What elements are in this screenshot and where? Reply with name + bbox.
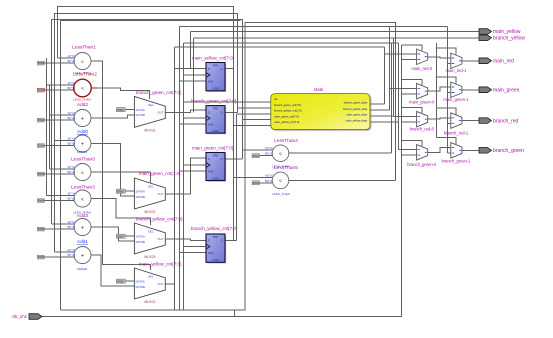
wire mux3 OUT to reg4 D (165, 239, 206, 240)
register main_green_cnt[7:0] (206, 153, 226, 182)
wire LessThan1 output to mux4 sel (91, 61, 151, 270)
svg-text:branch_yellow_cnt[7:0]: branch_yellow_cnt[7:0] (191, 226, 237, 231)
wire state branch_green_cnt input (238, 108, 271, 112)
wire left bus A (46, 58, 48, 196)
svg-text:8'h01: 8'h01 (38, 144, 45, 148)
constant 8'h00 mux3 DATAA (116, 234, 125, 238)
svg-text:A[7:0]: A[7:0] (67, 248, 75, 252)
svg-text:LESS_THAN: LESS_THAN (272, 192, 290, 196)
svg-text:main_yellow: main_yellow (493, 29, 521, 35)
svg-text:OUT: OUT (157, 192, 163, 196)
svg-text:8'h00: 8'h00 (117, 189, 124, 193)
svg-text:+: + (81, 117, 85, 123)
svg-text:DATAB: DATAB (136, 240, 145, 244)
constant 8'h31 for LessThan1 (37, 61, 45, 65)
svg-text:B[7:0]: B[7:0] (67, 59, 75, 63)
constant 8'h2c LessThan4 (252, 154, 260, 158)
svg-text:branch_yellow: branch_yellow (493, 36, 525, 42)
wire LessThan4 A input (243, 149, 273, 151)
svg-text:Add3: Add3 (77, 213, 89, 219)
mux main_red-0 (417, 49, 428, 65)
svg-text:DATAA: DATAA (136, 190, 145, 194)
wire main_red-0 in2 (402, 59, 417, 61)
svg-text:A[7:0]: A[7:0] (67, 54, 75, 58)
wire LessThan2 A pin stub (highlighted) (71, 84, 75, 86)
wire mux1 OUT to reg2 D (165, 110, 206, 113)
svg-text:DATAA: DATAA (136, 108, 145, 112)
wire Add2 output to mux1 DATAB (91, 115, 134, 118)
svg-text:MUX21: MUX21 (144, 210, 155, 214)
svg-text:MUX21: MUX21 (144, 300, 155, 304)
svg-text:branch_green_data: branch_green_data (344, 101, 368, 105)
svg-text:+: + (81, 254, 85, 260)
svg-text:LessThan5: LessThan5 (274, 165, 298, 171)
svg-text:8'h24: 8'h24 (38, 172, 45, 176)
svg-text:D: D (208, 157, 210, 161)
wire Add2 B input (44, 119, 74, 121)
svg-text:branch_yellow_data: branch_yellow_data (343, 107, 367, 111)
svg-text:OUT: OUT (157, 111, 163, 115)
svg-text:<: < (81, 86, 84, 92)
svg-text:main_green_cnt(7:0): main_green_cnt(7:0) (139, 171, 181, 176)
output port main_yellow (479, 29, 492, 35)
svg-text:8'h2c: 8'h2c (253, 154, 260, 158)
wire mux2 DATAA stub (125, 190, 134, 192)
adder Add3 (74, 219, 91, 236)
svg-text:ENA: ENA (208, 170, 214, 174)
constant 8'h05 for LessThan3 (37, 199, 45, 203)
svg-text:8'h00: 8'h00 (117, 108, 124, 112)
wire reg4 clk stub (184, 246, 207, 248)
wire band x190 riser (190, 32, 192, 69)
comparator LessThan4 (272, 145, 289, 162)
wire vertical mid column x183.5 (183, 43, 185, 310)
wire mux4 DATAA stub (125, 280, 134, 282)
wire reg2 en stub (180, 123, 207, 125)
wire state branch_yellow_data output (370, 27, 390, 111)
svg-text:LessThan4: LessThan4 (274, 138, 298, 144)
wire main_green-1 in2 (448, 92, 451, 94)
svg-text:<: < (279, 152, 282, 158)
svg-text:main_green: main_green (493, 88, 520, 94)
output port branch_yellow (479, 35, 492, 41)
svg-text:DATAB: DATAB (136, 113, 145, 117)
wire main_green-0 in1 (390, 87, 417, 89)
svg-text:+: + (81, 226, 85, 232)
svg-text:B[7:0]: B[7:0] (67, 197, 75, 201)
svg-text:D: D (208, 239, 210, 243)
svg-text:main_yellow_data: main_yellow_data (345, 118, 367, 122)
wire main_green-0 sel (402, 79, 422, 85)
svg-text:D: D (208, 110, 210, 114)
wire main_red-1 in2 (448, 63, 451, 65)
svg-text:main_green-1: main_green-1 (443, 97, 469, 102)
wire LessThan3 output to mux3 sel (91, 199, 151, 226)
svg-text:Add2: Add2 (77, 102, 89, 108)
wire main_yellow net (191, 31, 480, 33)
svg-text:ENA: ENA (208, 80, 214, 84)
register branch_green_cnt[7:0] (206, 106, 226, 135)
svg-text:main_green_cnt[7:0]: main_green_cnt[7:0] (274, 114, 299, 118)
wire branch_red-1 in2 (448, 122, 451, 124)
svg-text:main_red-0: main_red-0 (411, 66, 432, 71)
svg-text:main_red-1: main_red-1 (446, 68, 467, 73)
wire clk stub x234 (234, 310, 236, 316)
wire reg3 en stub (180, 170, 207, 172)
wire LessThan5 B input (260, 182, 273, 184)
wire state branch_green_data output (370, 47, 385, 104)
input port clk_1hz (29, 314, 42, 320)
svg-text:<: < (81, 197, 84, 203)
constant 8'h18 LessThan5 (252, 181, 260, 185)
svg-text:SEL: SEL (148, 103, 154, 107)
wire LessThan2 B input (44, 89, 71, 91)
wire branch_green-0 sel (402, 141, 422, 147)
wire main_green-0 in2 (402, 93, 417, 95)
constant 8'h01 for Add3 (37, 227, 45, 231)
wire Add0 A input (55, 140, 75, 142)
wire LessThan0 A input (50, 168, 75, 170)
svg-text:A[7:0]: A[7:0] (67, 81, 75, 85)
wire LessThan3 B input (44, 200, 74, 202)
mux MUX21 #1 branch_green (134, 96, 165, 127)
wire Add1 A input (55, 251, 75, 253)
mux branch_green-0 (417, 145, 428, 161)
wire state clk input (184, 101, 271, 103)
svg-text:B[7:0]: B[7:0] (67, 225, 75, 229)
wire main_red net to port (462, 60, 479, 62)
wire branch_red-0 sel (402, 107, 422, 113)
wire reg1 Q out (225, 68, 234, 70)
svg-text:ADDER: ADDER (77, 267, 88, 271)
wire main_red-1 sel (437, 48, 456, 55)
wire sel feeder vertical x436.5 (436, 43, 438, 138)
svg-text:OUT: OUT (157, 237, 163, 241)
constant 8'h00 mux2 DATAA (116, 189, 125, 193)
mux branch_red-0 (417, 111, 428, 127)
wire mux3 DATAA stub (125, 235, 134, 237)
svg-text:branch_green: branch_green (493, 148, 524, 154)
svg-text:branch_red-0: branch_red-0 (410, 127, 435, 132)
svg-text:PRE: PRE (213, 154, 219, 158)
svg-text:main_green-0: main_green-0 (409, 100, 435, 105)
wire Add0 output to mux2 DATAB (91, 144, 134, 197)
mux MUX21 #4 main_yellow (134, 268, 165, 299)
mux main_green-0 (417, 83, 428, 99)
wire bottom frame (61, 23, 245, 311)
svg-text:CLRN: CLRN (212, 129, 219, 133)
svg-text:branch_red: branch_red (493, 118, 519, 124)
wire bus frame top 1 (58, 7, 234, 241)
svg-text:main_green_cnt[7:0]: main_green_cnt[7:0] (192, 146, 233, 151)
wire reg2 Q out (225, 111, 238, 113)
wire band y46.9 (175, 46, 385, 48)
svg-text:8'h01: 8'h01 (38, 255, 45, 259)
wire Add3 B input (44, 228, 74, 230)
output port branch_green (479, 148, 492, 154)
svg-text:DATAA: DATAA (136, 235, 145, 239)
register main_yellow_cnt[7:0] (206, 63, 226, 93)
svg-text:state: state (314, 87, 324, 92)
wire branch_red-0 in1 (394, 115, 417, 117)
svg-text:<: < (81, 170, 84, 176)
wire LessThan2 output to mux1 sel (97, 88, 150, 99)
svg-text:A[7:0]: A[7:0] (265, 173, 273, 177)
mux branch_red-1 (451, 113, 462, 129)
wire state main_yellow_data output (370, 43, 399, 150)
wire Add1 B input (44, 256, 74, 258)
svg-text:clk_1hz: clk_1hz (12, 314, 27, 319)
adder Add0 (74, 135, 91, 152)
wire band y26.6 (180, 26, 448, 28)
wire band x193 riser (193, 38, 195, 113)
wire main_red-0 sel (402, 45, 422, 51)
wire LessThan4 B input (260, 155, 273, 157)
adder Add2 (74, 110, 91, 127)
svg-text:DATAB: DATAB (136, 195, 145, 199)
constant 8'h00 mux4 DATAA (116, 279, 125, 283)
svg-text:B[7:0]: B[7:0] (67, 170, 75, 174)
module frame (61, 21, 241, 311)
wire LessThan5 A input (234, 176, 273, 178)
wire in2 feeder vertical x447.5 (447, 27, 449, 154)
wire LessThan0 output to mux2 sel (91, 172, 151, 183)
wire main_green-0 out to main_green-1 in1 (428, 87, 451, 91)
svg-text:Add1: Add1 (77, 239, 89, 245)
svg-text:main_red: main_red (493, 59, 514, 65)
svg-text:main_yellow_cnt[7:0]: main_yellow_cnt[7:0] (274, 120, 299, 124)
svg-text:PRE: PRE (213, 235, 219, 239)
wire branch_red-1 sel (437, 108, 456, 115)
wire state branch_yellow_cnt input (237, 113, 271, 115)
svg-text:branch_green_cnt(7:0): branch_green_cnt(7:0) (136, 90, 182, 95)
wire vertical mid column x174.5 (174, 47, 176, 310)
wire Add2 A input (50, 114, 75, 116)
svg-text:8'h00: 8'h00 (117, 279, 124, 283)
comparator LessThan2 (highlighted red) (74, 79, 92, 97)
wire LessThan2 B pin stub (highlighted) (71, 89, 75, 91)
svg-text:SEL: SEL (148, 230, 154, 234)
svg-text:PRE: PRE (213, 64, 219, 68)
svg-text:main_yellow_cnt[7:0]: main_yellow_cnt[7:0] (192, 56, 234, 61)
svg-text:ENA: ENA (208, 251, 214, 255)
wire bus frame top 2 (55, 14, 238, 253)
constant 8'h00 mux1 DATAA (116, 108, 125, 112)
constant 8'h01 for Add2 (37, 118, 45, 122)
svg-text:DATAB: DATAB (136, 285, 145, 289)
constant 8'h01 for Add1 (37, 255, 45, 259)
op-amp circle LessThan1 (74, 53, 91, 70)
svg-text:B[7:0]: B[7:0] (265, 152, 273, 156)
constant 8'h01 for Add0 (37, 144, 45, 148)
svg-text:LessThan3: LessThan3 (71, 185, 95, 191)
svg-text:LessThan0: LessThan0 (71, 157, 95, 163)
svg-text:B[7:0]: B[7:0] (67, 142, 75, 146)
wire branch_green net to port (462, 149, 479, 151)
wire state main_yellow_cnt input (234, 114, 271, 241)
wire mux2 OUT to reg3 D (165, 158, 206, 194)
svg-text:8'h31: 8'h31 (38, 61, 45, 65)
svg-text:CLRN: CLRN (212, 258, 219, 262)
svg-text:ENA: ENA (208, 123, 214, 127)
wire branch_red-0 in2 (402, 121, 417, 123)
wire LessThan1 B input (44, 62, 74, 64)
svg-text:A[7:0]: A[7:0] (67, 220, 75, 224)
wire reg1 en stub (180, 80, 207, 82)
svg-text:8'h01: 8'h01 (38, 118, 45, 122)
wire left bus B (49, 85, 51, 169)
svg-text:PRE: PRE (213, 107, 219, 111)
output port main_red (479, 58, 492, 64)
wire Add0 B input (44, 145, 74, 147)
block state (271, 94, 372, 132)
wire mux1 DATAA stub (125, 109, 134, 111)
svg-text:CLRN: CLRN (212, 87, 219, 91)
output port main_green (479, 87, 492, 93)
svg-text:CLRN: CLRN (212, 176, 219, 180)
wire LessThan2 output pin stub (highlighted) (91, 87, 97, 89)
output port branch_red (479, 118, 492, 124)
svg-text:<: < (279, 179, 282, 185)
svg-text:MUX21: MUX21 (144, 255, 155, 259)
svg-text:D: D (208, 67, 210, 71)
svg-text:8'h01: 8'h01 (38, 227, 45, 231)
svg-text:8'h05: 8'h05 (38, 88, 45, 92)
wire LessThan5 output (289, 179, 396, 181)
svg-text:OUT: OUT (157, 282, 163, 286)
comparator LessThan3 (74, 190, 91, 207)
svg-text:main_yellow_cnt(7:0): main_yellow_cnt(7:0) (139, 261, 182, 266)
wire branch_green-0 out to branch_green-1 in1 (428, 148, 451, 153)
svg-text:A[7:0]: A[7:0] (67, 192, 75, 196)
mux main_red-1 (451, 53, 462, 69)
svg-text:8'h00: 8'h00 (117, 234, 124, 238)
svg-text:Add0: Add0 (77, 129, 89, 135)
wire band y24.5 (245, 23, 396, 181)
svg-text:SEL: SEL (148, 185, 154, 189)
svg-text:main_green_data: main_green_data (346, 113, 367, 117)
svg-text:SEL: SEL (148, 275, 154, 279)
svg-text:branch_green_cnt[7:0]: branch_green_cnt[7:0] (274, 103, 301, 107)
wire main_green-1 sel (437, 77, 456, 84)
mux branch_green-1 (451, 143, 462, 159)
wire branch_green-0 in2 (402, 154, 417, 156)
wire reg4 en stub (180, 252, 207, 254)
svg-text:A[7:0]: A[7:0] (67, 111, 75, 115)
svg-text:MUX21: MUX21 (144, 128, 155, 132)
svg-text:<: < (81, 59, 84, 65)
svg-text:8'h18: 8'h18 (253, 181, 260, 185)
wire Add1 output to mux4 DATAB (91, 255, 134, 286)
svg-text:branch_red-1: branch_red-1 (444, 131, 469, 136)
wire Add3 A input (52, 223, 75, 225)
constant 8'h05 for LessThan2 (37, 88, 45, 92)
wire main_red-0 in1 (385, 53, 417, 55)
mux MUX21 #2 main_green (134, 178, 165, 209)
wire branch_green-1 in2 (448, 152, 451, 154)
wire state main_green_data output (370, 38, 394, 116)
wire reg3 clk stub (184, 164, 207, 166)
wire LessThan0 B input (44, 173, 74, 175)
svg-text:B[7:0]: B[7:0] (67, 116, 75, 120)
wire LessThan1 A input (58, 57, 75, 59)
wire branch_green-0 in1 (399, 149, 417, 151)
adder Add1 (74, 247, 91, 264)
svg-text:LessThan1: LessThan1 (72, 45, 96, 51)
svg-text:A[7:0]: A[7:0] (265, 146, 273, 150)
wire branch_green-1 sel (437, 138, 456, 145)
register branch_yellow_cnt[7:0] (206, 234, 226, 264)
wire Add3 output to mux3 DATAB (91, 227, 134, 241)
svg-text:B[7:0]: B[7:0] (67, 253, 75, 257)
svg-text:+: + (81, 142, 85, 148)
svg-text:branch_green-0: branch_green-0 (407, 162, 437, 167)
svg-text:LESS_THAN: LESS_THAN (73, 98, 91, 102)
wire reg4 Q out (225, 239, 237, 241)
wire reg2 clk stub (184, 117, 207, 119)
wire mux4 OUT to reg1 D via x174.5 (165, 69, 206, 284)
comparator LessThan0 (74, 164, 91, 181)
wire state main_green_cnt input (243, 119, 271, 121)
wire main_red-0 out to main_red-1 in1 (428, 57, 451, 58)
wire band y43 (184, 42, 399, 44)
svg-text:B[7:0]: B[7:0] (265, 179, 273, 183)
svg-text:DATAA: DATAA (136, 280, 145, 284)
wire clk net bottom (42, 45, 402, 317)
wire reg1 clk stub (184, 74, 207, 76)
wire vertical mid column x179.5 (179, 27, 181, 311)
wire LessThan3 A input (47, 195, 75, 197)
wire branch_red net to port (462, 120, 479, 122)
wire LessThan2 A input (47, 84, 72, 86)
mux MUX21 #3 branch_yellow (134, 223, 165, 254)
svg-text:branch_yellow_cnt(7:0): branch_yellow_cnt(7:0) (136, 216, 183, 221)
svg-text:branch_yellow_cnt[7:0]: branch_yellow_cnt[7:0] (274, 109, 302, 113)
svg-text:ADDER: ADDER (77, 150, 88, 154)
constant 8'h24 for LessThan0 (37, 172, 45, 176)
svg-text:branch_green-1: branch_green-1 (442, 159, 472, 164)
mux main_green-1 (451, 82, 462, 98)
wire LessThan4 output (289, 43, 392, 153)
svg-text:LessThan2: LessThan2 (73, 72, 97, 78)
wire bus frame top 3 (52, 20, 243, 225)
svg-text:A[7:0]: A[7:0] (67, 165, 75, 169)
wire branch_red-0 out to branch_red-1 in1 (428, 118, 451, 119)
wire reg3 Q out (225, 158, 243, 160)
wire main_green net to port (462, 89, 479, 91)
svg-text:B[7:0]: B[7:0] (67, 86, 75, 90)
wire branch_yellow net (194, 37, 480, 39)
comparator LessThan5 (272, 172, 289, 189)
svg-text:8'h05: 8'h05 (38, 199, 45, 203)
svg-text:A[7:0]: A[7:0] (67, 137, 75, 141)
svg-text:branch_green_cnt[7:0]: branch_green_cnt[7:0] (191, 99, 236, 104)
